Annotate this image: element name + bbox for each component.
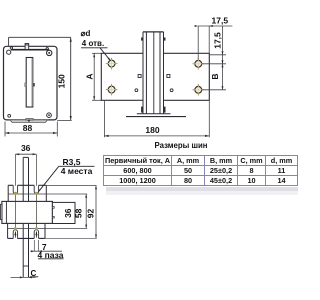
transformer body vertical (143, 32, 164, 114)
svg-text:4 места: 4 места (61, 166, 93, 176)
slot centerlines crossing body (14, 202, 16, 223)
hole bottom-right (47, 113, 52, 118)
bottom base strip (10, 120, 48, 123)
svg-text:B: B (210, 74, 220, 80)
terminal screw left (10, 47, 12, 49)
svg-text:36: 36 (63, 208, 73, 218)
dimension 58 (46, 193, 87, 195)
slot centerlines (14, 154, 16, 236)
svg-text:17,5: 17,5 (213, 32, 223, 49)
hole left-bottom (106, 84, 118, 96)
main body (top view) (2, 201, 53, 223)
svg-text:4 паза: 4 паза (38, 250, 64, 260)
svg-text:⌀d: ⌀d (81, 29, 91, 38)
floor line (126, 116, 186, 118)
hole right-top (193, 58, 205, 70)
central slot (26, 58, 33, 108)
svg-text:17,5: 17,5 (212, 15, 229, 25)
dimensions table (103, 155, 298, 186)
center screw block (25, 44, 29, 50)
upper flange (8, 185, 46, 201)
dimension 36 top (15, 153, 36, 155)
table shadow (106, 187, 298, 191)
svg-text:150: 150 (57, 74, 67, 88)
terminal screw right (46, 48, 48, 50)
hole top-right (47, 50, 52, 55)
svg-text:58: 58 (74, 208, 84, 218)
svg-text:36: 36 (21, 143, 31, 153)
lower flange (8, 223, 45, 238)
hole right-bottom (193, 84, 205, 96)
svg-text:4 отв.: 4 отв. (82, 39, 104, 48)
dimension 92 (46, 185, 96, 187)
vertical bus bar (22, 157, 24, 277)
hole top-left (7, 50, 11, 54)
title Размеры шин (131, 141, 231, 150)
lower slots (13, 227, 17, 238)
hole left-top (106, 58, 118, 70)
dimension 17,5 vertical and B (222, 26, 224, 90)
base plate (137, 113, 171, 115)
hole bottom-left (8, 114, 11, 117)
small square marks on bar (138, 75, 141, 78)
body top clips (141, 38, 143, 41)
terminal bar line (11, 49, 49, 51)
dimension 88 (4, 122, 6, 137)
dimension 150 (9, 36, 71, 38)
svg-text:88: 88 (23, 123, 33, 133)
dimension A (92, 52, 101, 54)
dimension 17,5 horizontal (197, 26, 199, 59)
front plate outline (4, 46, 58, 120)
dimension C (bar thickness) (11, 276, 36, 278)
svg-text:A: A (84, 73, 94, 79)
upper slots with R3.5 (13, 185, 17, 195)
terminal box right (52, 202, 75, 223)
small circle marks on bar (135, 89, 138, 92)
body bottom clips (141, 107, 143, 113)
bus bar rectangle (101, 53, 209, 100)
dimension 7 (slot width) (33, 240, 35, 251)
svg-text:180: 180 (145, 125, 159, 135)
dimension 180 (103, 101, 105, 137)
svg-text:92: 92 (85, 209, 95, 219)
